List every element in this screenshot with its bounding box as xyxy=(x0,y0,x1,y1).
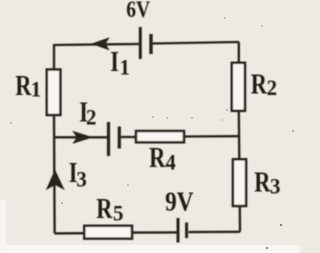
wire: right vertical (R3 to bottom corner) xyxy=(239,206,242,232)
battery 9V (short bar) xyxy=(185,223,188,239)
battery 9V (long bar) xyxy=(177,218,180,243)
resistor R5 xyxy=(84,226,132,239)
wire: bottom (9V battery to R5) xyxy=(132,231,177,234)
resistor R2 xyxy=(232,63,245,111)
wire: middle horizontal (battery to R4) xyxy=(121,136,136,138)
current arrow I2 (points right) xyxy=(74,132,92,143)
svg-text:3: 3 xyxy=(76,167,86,192)
middle battery (long bar) xyxy=(107,122,110,156)
svg-text:I: I xyxy=(110,47,119,78)
resistor R4 xyxy=(136,131,184,142)
wire: bottom (right corner to 9V battery) xyxy=(189,231,241,234)
wire: top-left horizontal segment xyxy=(54,44,139,45)
svg-text:R: R xyxy=(96,194,113,225)
current arrow I3 (points up) xyxy=(47,171,64,189)
wire: right vertical (top corner to R2) xyxy=(238,42,240,63)
svg-text:1: 1 xyxy=(31,77,41,102)
wire: bottom (R5 to left corner) xyxy=(55,232,85,235)
resistor R1 xyxy=(47,70,61,116)
wire: middle horizontal (R4 to right wire) xyxy=(184,135,239,138)
svg-text:3: 3 xyxy=(270,174,280,199)
svg-text:R: R xyxy=(251,69,268,100)
svg-text:2: 2 xyxy=(267,76,277,101)
current arrow I1 (points left) xyxy=(93,38,109,49)
battery 6V (short bar) xyxy=(149,34,152,54)
svg-text:2: 2 xyxy=(86,105,96,130)
wire: middle horizontal (left of battery) xyxy=(54,136,107,138)
battery 6V (long bar) xyxy=(139,27,142,59)
wire: left vertical (top, to R1) xyxy=(53,44,55,70)
resistor R3 xyxy=(233,159,246,206)
svg-text:R: R xyxy=(149,143,166,174)
svg-text:R: R xyxy=(254,167,271,198)
wire: right vertical (R2 to R3) xyxy=(238,111,241,160)
wire: left vertical (R1 to bottom corner) xyxy=(53,115,56,233)
svg-text:5: 5 xyxy=(113,201,123,226)
svg-text:6V: 6V xyxy=(126,0,150,22)
wire: top-right horizontal segment xyxy=(153,42,240,44)
svg-text:1: 1 xyxy=(120,55,130,80)
svg-text:9V: 9V xyxy=(165,188,193,217)
middle battery (short bar) xyxy=(118,127,121,149)
svg-text:R: R xyxy=(15,71,32,102)
svg-text:4: 4 xyxy=(165,150,176,175)
